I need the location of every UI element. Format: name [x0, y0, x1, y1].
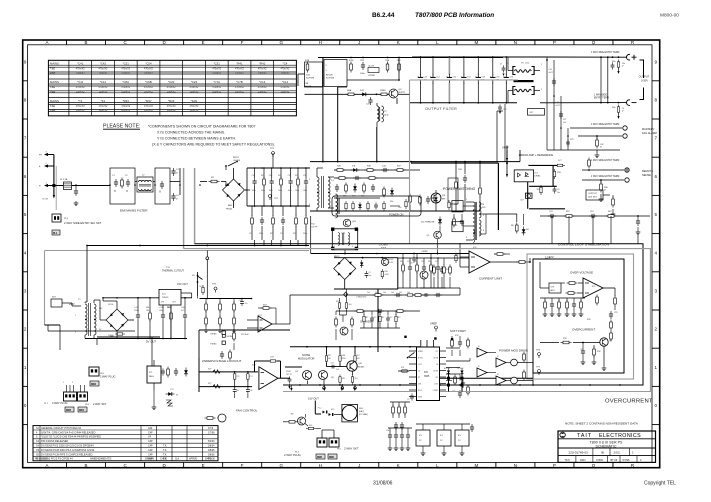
svg-text:2: 2	[655, 327, 658, 332]
svg-text:C5: C5	[369, 272, 371, 274]
svg-text:PL-1: PL-1	[318, 408, 322, 410]
svg-text:1n5: 1n5	[336, 369, 339, 371]
svg-text:1/7/98: 1/7/98	[208, 432, 215, 434]
svg-text:5/4/03: 5/4/03	[208, 441, 215, 443]
svg-text:R56: R56	[597, 351, 600, 353]
svg-text:0: 0	[655, 403, 658, 408]
svg-text:Y IS CONNECTED BETWEEN MAI: Y IS CONNECTED BETWEEN MAINS & EARTH.	[157, 137, 236, 141]
svg-text:+VREF: +VREF	[421, 251, 428, 253]
svg-text:3: 3	[72, 382, 73, 384]
svg-text:F: F	[241, 463, 244, 468]
svg-text:Q2: Q2	[399, 89, 403, 91]
svg-text:7: 7	[24, 136, 27, 141]
svg-text:C3B: C3B	[304, 83, 309, 85]
svg-text:OUTPUT: OUTPUT	[639, 75, 650, 79]
svg-text:EMI MAINS FILTER: EMI MAINS FILTER	[120, 209, 148, 213]
svg-text:Y: Y	[176, 393, 178, 397]
svg-text:C38: C38	[303, 175, 306, 177]
svg-text:1k0: 1k0	[407, 292, 410, 294]
svg-text:4: 4	[36, 431, 38, 434]
svg-text:TKO: TKO	[565, 459, 570, 462]
svg-text:ERROR AMP + REFERENCE: ERROR AMP + REFERENCE	[519, 153, 554, 157]
svg-text:N: N	[39, 186, 41, 188]
svg-text:IB: IB	[601, 450, 604, 454]
svg-text:SCPGM: SCPGM	[326, 78, 334, 80]
svg-text:P34 F40/S3 RELEASED: P34 F40/S3 RELEASED	[41, 440, 68, 443]
svg-text:4n7/Y: 4n7/Y	[549, 72, 554, 74]
svg-text:2: 2	[326, 65, 328, 67]
svg-text:470n/X2: 470n/X2	[189, 105, 199, 108]
svg-text:Q9: Q9	[609, 340, 613, 342]
svg-text:470n/X2: 470n/X2	[189, 86, 199, 89]
svg-text:C6: C6	[557, 189, 559, 191]
svg-text:*R37: *R37	[145, 99, 152, 103]
svg-text:C4?: C4?	[366, 104, 371, 106]
svg-text:T6: T6	[521, 63, 524, 65]
svg-text:C5?: C5?	[239, 300, 242, 302]
svg-text:IC: IC	[497, 374, 500, 376]
svg-text:3 WAY PLUG: 3 WAY PLUG	[52, 401, 68, 405]
svg-text:K: K	[397, 40, 400, 45]
svg-text:MAINS: MAINS	[50, 99, 59, 103]
svg-text:C21: C21	[407, 261, 410, 263]
svg-text:2R2: 2R2	[537, 189, 540, 191]
svg-text:C62: C62	[556, 102, 559, 104]
svg-text:R5?: R5?	[355, 378, 358, 380]
svg-text:R78: R78	[570, 139, 573, 141]
svg-text:J: J	[358, 463, 360, 468]
svg-text:R31: R31	[400, 261, 403, 263]
svg-text:P&B: P&B	[50, 71, 55, 75]
svg-text:C6x: C6x	[398, 207, 401, 209]
svg-text:BT 06: BT 06	[611, 459, 618, 462]
svg-text:Q.A.: Q.A.	[175, 458, 180, 461]
svg-text:L4/D: L4/D	[525, 63, 530, 65]
svg-text:MAINS/PV: MAINS/PV	[642, 127, 655, 131]
svg-text:100: 100	[236, 390, 239, 392]
svg-text:R5?: R5?	[357, 355, 360, 357]
svg-text:(DC FAN): (DC FAN)	[359, 413, 368, 416]
svg-text:6: 6	[24, 174, 27, 179]
svg-text:470n/X2: 470n/X2	[144, 105, 154, 108]
svg-text:M: M	[474, 463, 478, 468]
svg-text:EL759: EL759	[43, 199, 48, 201]
svg-text:C35: C35	[252, 175, 255, 177]
svg-text:R2?: R2?	[271, 357, 274, 359]
svg-text:DATE: DATE	[205, 458, 212, 461]
svg-text:L4/D: L4/D	[384, 115, 389, 117]
svg-text:3525: 3525	[424, 375, 430, 378]
svg-text:D/PAC: D/PAC	[534, 175, 541, 178]
svg-text:IC4: IC4	[258, 315, 262, 317]
svg-text:TAIT: TAIT	[577, 433, 592, 439]
svg-text:PL5: PL5	[337, 449, 342, 451]
svg-text:S: S	[36, 436, 38, 439]
svg-text:FT-092: FT-092	[388, 262, 394, 264]
svg-text:4: 4	[655, 250, 658, 255]
svg-text:DM4: DM4	[79, 409, 85, 412]
svg-text:1: 1	[334, 246, 335, 248]
svg-text:X: X	[159, 190, 161, 194]
svg-text:SENSE: SENSE	[642, 173, 651, 177]
svg-text:*C8A: *C8A	[122, 80, 129, 84]
svg-text:C6?: C6?	[389, 317, 392, 319]
svg-text:1: 1	[46, 183, 48, 185]
svg-text:OUTA: OUTA	[433, 356, 439, 359]
svg-text:TC3: TC3	[454, 225, 459, 227]
svg-text:P&B: P&B	[50, 90, 55, 94]
svg-text:REMOTE: REMOTE	[642, 169, 653, 173]
svg-text:S/LO: S/LO	[418, 390, 423, 392]
svg-text:(FA?): (FA?)	[359, 410, 364, 413]
svg-text:100u: 100u	[288, 190, 292, 192]
svg-text:C05 PF: C05 PF	[311, 227, 318, 229]
svg-text:100n/X2: 100n/X2	[76, 91, 86, 94]
svg-text:S/SKT/4, C/R8 CHG*3/4 P+S C/R: S/SKT/4, C/R8 CHG*3/4 P+S C/R44 RELEASED	[41, 431, 96, 434]
svg-text:DM3: DM3	[66, 410, 72, 412]
svg-text:S5: S5	[36, 453, 40, 456]
svg-text:R2?: R2?	[208, 369, 211, 371]
svg-text:M800-00: M800-00	[660, 13, 679, 19]
svg-text:470n/X2: 470n/X2	[212, 68, 222, 71]
svg-text:470n/X2: 470n/X2	[212, 86, 222, 89]
svg-text:L SB23 B7D: L SB23 B7D	[356, 297, 367, 299]
svg-text:*R33: *R33	[168, 99, 175, 103]
svg-text:470n/X2: 470n/X2	[98, 68, 108, 71]
svg-text:C-LIMIT: C-LIMIT	[379, 242, 389, 246]
svg-text:PH: PH	[39, 155, 42, 157]
svg-text:C54: C54	[481, 77, 486, 79]
svg-text:C4P: C4P	[148, 431, 153, 434]
svg-text:26V: 26V	[99, 308, 103, 310]
svg-text:R61: R61	[146, 307, 149, 309]
svg-text:BYD33: BYD33	[444, 368, 450, 370]
svg-text:C6?: C6?	[580, 349, 583, 351]
svg-text:C22: C22	[421, 261, 424, 263]
svg-text:100n/X2: 100n/X2	[76, 72, 86, 75]
svg-text:PL3: PL3	[64, 218, 69, 220]
svg-text:R22: R22	[278, 175, 281, 177]
svg-text:100n/X2: 100n/X2	[189, 91, 199, 94]
svg-text:4u7: 4u7	[181, 310, 184, 312]
svg-text:FAIL ALARM: FAIL ALARM	[642, 131, 657, 135]
svg-text:Q5: Q5	[331, 377, 335, 379]
svg-text:1k0: 1k0	[391, 292, 394, 294]
svg-text:R5x: R5x	[612, 107, 616, 109]
svg-text:POWER MOS DRIVE: POWER MOS DRIVE	[499, 349, 528, 353]
svg-text:100n/X2: 100n/X2	[98, 72, 108, 75]
svg-text:R6: R6	[291, 414, 294, 416]
svg-text:F: F	[241, 40, 244, 45]
svg-text:T52: T52	[311, 224, 315, 226]
svg-text:SK2: SK2	[331, 409, 334, 411]
svg-text:K: K	[397, 463, 400, 468]
svg-text:X: X	[114, 189, 116, 193]
svg-text:TP2: TP2	[274, 198, 279, 200]
svg-text:1: 1	[63, 382, 64, 384]
svg-text:100n/X2: 100n/X2	[144, 109, 154, 112]
svg-text:C4P: C4P	[148, 445, 153, 448]
svg-text:R77: R77	[563, 119, 566, 121]
svg-text:1 WAY SIDE ENTRY TERM: 1 WAY SIDE ENTRY TERM	[591, 51, 619, 54]
svg-text:*C41: *C41	[77, 62, 84, 66]
svg-text:BTPAT: BTPAT	[369, 74, 376, 77]
svg-text:IC: IC	[478, 366, 481, 368]
svg-text:R2?: R2?	[208, 383, 211, 385]
svg-text:100u: 100u	[159, 310, 163, 312]
svg-text:R3?: R3?	[342, 378, 345, 380]
svg-text:2: 2	[541, 89, 542, 91]
svg-text:C8? 10: C8? 10	[286, 374, 292, 376]
svg-text:5V OUT: 5V OUT	[146, 340, 156, 344]
svg-text:VREF: VREF	[430, 322, 437, 326]
svg-text:R7N: R7N	[349, 60, 354, 62]
svg-text:C1?: C1?	[170, 389, 175, 391]
svg-text:BUZ71: BUZ71	[399, 92, 407, 94]
svg-text:D42: D42	[360, 90, 365, 92]
svg-text:T&E: T&E	[50, 67, 55, 71]
svg-text:P6B8: P6B8	[380, 90, 386, 92]
svg-text:R8?: R8?	[336, 301, 339, 303]
svg-text:1: 1	[466, 199, 468, 201]
svg-text:1k0: 1k0	[375, 292, 378, 294]
svg-text:MAINS: MAINS	[50, 62, 59, 66]
svg-text:IC7: IC7	[534, 173, 538, 175]
svg-text:Q5?: Q5?	[520, 200, 524, 202]
svg-text:E: E	[202, 40, 205, 45]
svg-text:MAINS: MAINS	[50, 80, 59, 84]
svg-text:1: 1	[655, 365, 658, 370]
svg-text:*C54: *C54	[145, 62, 152, 66]
svg-text:ENTRY TERM: ENTRY TERM	[594, 98, 609, 100]
svg-text:24B: 24B	[359, 408, 363, 410]
svg-text:470n/X2: 470n/X2	[235, 86, 245, 89]
svg-text:100n/X2: 100n/X2	[235, 91, 245, 94]
svg-text:OUTB: OUTB	[433, 370, 439, 372]
svg-text:100n/X2: 100n/X2	[76, 109, 86, 112]
svg-text:*C7B: *C7B	[236, 80, 243, 84]
svg-text:Copyright TEL: Copyright TEL	[644, 481, 676, 487]
svg-text:100n/X2: 100n/X2	[235, 72, 245, 75]
svg-text:3/7/9: 3/7/9	[208, 428, 214, 430]
svg-text:15V OUT: 15V OUT	[308, 397, 319, 401]
svg-text:IC: IC	[497, 356, 500, 358]
svg-text:S1: S1	[36, 427, 40, 430]
svg-text:Y: Y	[176, 197, 178, 201]
svg-text:2 WAY PLUG: 2 WAY PLUG	[100, 375, 116, 379]
svg-text:C51: C51	[436, 77, 441, 79]
svg-text:R33: R33	[428, 261, 431, 263]
svg-text:(X & Y CAPACITORS ARE REQUIR: (X & Y CAPACITORS ARE REQUIRED TO MEET S…	[152, 143, 275, 147]
svg-text:R26: R26	[293, 233, 296, 235]
svg-text:0: 0	[24, 403, 27, 408]
svg-text:H: H	[319, 40, 322, 45]
svg-text:*C11: *C11	[77, 80, 83, 84]
svg-text:7: 7	[655, 136, 658, 141]
svg-text:*C12: *C12	[100, 80, 107, 84]
svg-text:Y: Y	[600, 145, 602, 149]
svg-text:G: G	[279, 40, 283, 45]
svg-text:BR1: BR1	[228, 205, 233, 207]
svg-text:*C51: *C51	[123, 62, 130, 66]
svg-text:5: 5	[24, 212, 27, 217]
svg-text:CHKD: CHKD	[596, 459, 603, 462]
svg-text:220u: 220u	[303, 233, 307, 235]
svg-text:J: J	[358, 40, 360, 45]
svg-text:TP7: TP7	[536, 367, 541, 369]
svg-text:*C20: *C20	[168, 80, 175, 84]
svg-text:31/08/06: 31/08/06	[373, 481, 393, 487]
svg-text:O/P: O/P	[530, 112, 534, 114]
svg-text:DRN: DRN	[580, 459, 586, 462]
svg-text:P: P	[553, 40, 556, 45]
svg-text:R3B: R3B	[342, 355, 346, 357]
svg-text:470n/X2: 470n/X2	[121, 86, 131, 89]
svg-text:R6?: R6?	[608, 211, 613, 213]
svg-text:*C23: *C23	[191, 80, 198, 84]
svg-text:470n/X2: 470n/X2	[167, 86, 177, 89]
svg-text:R62: R62	[309, 425, 312, 427]
svg-text:220K: 220K	[342, 358, 347, 360]
svg-text:470n/X2: 470n/X2	[76, 86, 86, 89]
svg-text:470n/X2: 470n/X2	[280, 68, 290, 71]
svg-text:470n/X2: 470n/X2	[121, 105, 131, 108]
svg-text:C4: C4	[36, 440, 40, 443]
svg-text:1k0: 1k0	[383, 292, 386, 294]
svg-text:6: 6	[655, 174, 658, 179]
svg-text:2 WAY SIDE ENTRY IEC SKT: 2 WAY SIDE ENTRY IEC SKT	[64, 221, 102, 225]
svg-text:C44: C44	[382, 166, 387, 168]
svg-text:SKT: SKT	[52, 297, 57, 299]
svg-text:10u: 10u	[557, 192, 560, 194]
svg-text:Q5: Q5	[427, 235, 431, 237]
svg-text:Y: Y	[622, 109, 624, 113]
svg-text:T2: T2	[384, 111, 387, 113]
svg-text:DM2: DM2	[91, 384, 97, 386]
svg-text:BD681: BD681	[358, 367, 365, 369]
svg-text:TSPAD: TSPAD	[210, 343, 217, 346]
svg-text:*R41: *R41	[236, 62, 243, 66]
svg-text:R48: R48	[367, 166, 372, 168]
svg-text:T.K.: T.K.	[163, 453, 167, 456]
svg-text:100n/X2: 100n/X2	[121, 91, 131, 94]
svg-text:DC?: DC?	[558, 160, 562, 162]
svg-text:C4?: C4?	[331, 363, 334, 365]
svg-text:470n/X2: 470n/X2	[121, 68, 131, 71]
svg-text:PLEASE NOTE:: PLEASE NOTE:	[103, 124, 140, 130]
svg-text:R5?: R5?	[328, 355, 331, 357]
svg-text:R6A: R6A	[347, 89, 352, 92]
svg-text:R8: R8	[511, 225, 514, 227]
svg-text:C5?: C5?	[236, 376, 239, 378]
svg-text:T&E: T&E	[50, 104, 55, 108]
svg-text:C5?: C5?	[614, 312, 619, 314]
svg-text:2 WAY SKT: 2 WAY SKT	[93, 402, 107, 406]
svg-text:G: G	[279, 463, 283, 468]
svg-text:SCHEMATIC: SCHEMATIC	[596, 444, 617, 448]
svg-text:*C42: *C42	[100, 62, 107, 66]
svg-text:6: 6	[483, 230, 484, 232]
svg-text:3: 3	[46, 152, 48, 154]
svg-text:F1 2.5A: F1 2.5A	[60, 178, 68, 181]
svg-text:TR8: TR8	[385, 60, 390, 62]
svg-text:A30: A30	[148, 427, 153, 430]
svg-text:1 WAY SIDE ENTRY TERM: 1 WAY SIDE ENTRY TERM	[591, 159, 619, 162]
svg-text:N/C: N/C	[192, 275, 196, 277]
svg-text:10n: 10n	[369, 275, 372, 277]
svg-text:REG: REG	[149, 376, 154, 378]
svg-text:C14: C14	[280, 233, 283, 235]
svg-text:N: N	[514, 40, 517, 45]
svg-text:100u: 100u	[360, 73, 366, 75]
svg-text:SCPGM: SCPGM	[306, 78, 314, 80]
svg-text:R55: R55	[587, 319, 592, 321]
svg-text:Y: Y	[622, 64, 624, 68]
svg-text:C7?: C7?	[407, 399, 410, 401]
svg-text:1: 1	[632, 450, 634, 454]
svg-text:*C6B: *C6B	[145, 80, 152, 84]
svg-text:*C13: *C13	[259, 80, 266, 84]
svg-text:100n/X2: 100n/X2	[189, 109, 199, 112]
svg-text:THERMAL CUTOUT: THERMAL CUTOUT	[162, 270, 184, 273]
svg-text:ARG05: ARG05	[388, 258, 394, 261]
svg-text:SYNC: SYNC	[418, 357, 424, 359]
svg-text:DY/GEN3 P/C/8 R/P3 S C34/PC8: DY/GEN3 P/C/8 R/P3 S C34/PC8 RELEASED	[41, 453, 93, 456]
svg-text:2: 2	[75, 332, 76, 334]
svg-text:9: 9	[655, 59, 658, 64]
svg-text:D8: D8	[526, 229, 529, 231]
svg-text:IC: IC	[478, 346, 481, 348]
svg-text:100u: 100u	[252, 190, 256, 192]
svg-text:C23: C23	[435, 261, 438, 263]
svg-text:H: H	[319, 463, 322, 468]
svg-text:12V: 12V	[549, 255, 554, 259]
svg-text:T&E: T&E	[50, 85, 55, 89]
svg-text:CHOKE: CHOKE	[233, 160, 241, 162]
svg-text:IRF: IRF	[442, 199, 446, 201]
svg-text:Q11: Q11	[358, 363, 363, 365]
svg-text:C3x: C3x	[386, 430, 389, 432]
svg-text:D1/D4: D1/D4	[108, 304, 113, 306]
svg-text:R80: R80	[385, 271, 388, 273]
svg-text:Y: Y	[604, 188, 606, 192]
svg-text:3/8/04: 3/8/04	[208, 446, 215, 448]
svg-text:T1: T1	[78, 299, 81, 301]
svg-text:100n/X2: 100n/X2	[258, 72, 268, 75]
svg-text:470n/X2: 470n/X2	[76, 105, 86, 108]
svg-text:P: P	[553, 463, 556, 468]
svg-text:Q03: Q03	[352, 221, 357, 223]
svg-text:100n/X2: 100n/X2	[144, 91, 154, 94]
svg-text:PL7: PL7	[44, 403, 49, 405]
svg-text:O/V: O/V	[551, 287, 555, 289]
svg-text:1: 1	[541, 64, 542, 66]
svg-text:DY/GEN3 P/X3 S300 034 2/3-: DY/GEN3 P/X3 S300 034 2/3-C/3-03 S/PCB/4…	[41, 445, 94, 448]
svg-text:R5?: R5?	[566, 211, 571, 213]
svg-text:SOFT START: SOFT START	[450, 329, 466, 333]
svg-text:5: 5	[655, 212, 658, 217]
svg-text:OVER VOLTAGE: OVER VOLTAGE	[570, 271, 593, 275]
svg-text:T5: T5	[482, 204, 485, 206]
svg-text:(5V) SKT: (5V) SKT	[588, 197, 598, 199]
svg-text:C13: C13	[249, 233, 252, 235]
svg-text:D5x PWBD/SE: D5x PWBD/SE	[421, 222, 435, 224]
svg-text:15/5: 15/5	[482, 207, 487, 209]
svg-text:3/8/06: 3/8/06	[208, 454, 215, 456]
svg-text:10k: 10k	[563, 122, 566, 124]
svg-text:1k0: 1k0	[367, 292, 370, 294]
svg-text:R6?: R6?	[381, 317, 384, 319]
